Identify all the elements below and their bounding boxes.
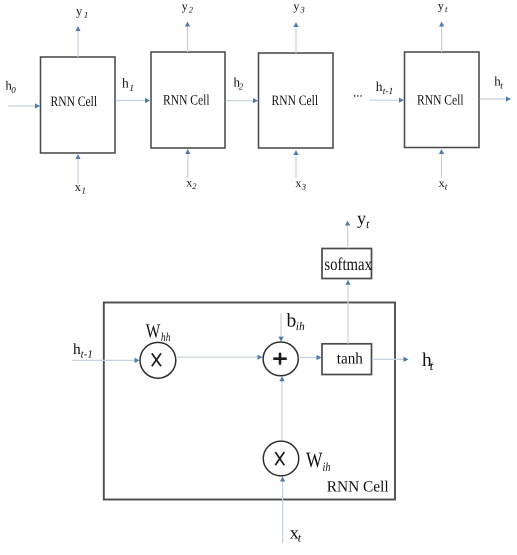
label x2 [186,175,197,191]
wire/arrow box4 to yt [439,22,444,53]
RNN Cell box 2 [151,52,225,148]
svg-text:b: b [287,311,297,332]
svg-text:RNN Cell: RNN Cell [327,479,390,496]
svg-text:tanh: tanh [337,350,363,367]
wire/arrow h(t-1) into box4 [370,98,405,103]
wire/arrow bih into add [278,313,283,342]
svg-text:...: ... [353,85,363,100]
svg-text:t: t [500,81,503,91]
label RNN Cell big text [327,479,390,496]
wire/arrow h2 box2 to box3 [226,98,259,103]
softmax box [322,249,372,279]
wire/arrow ht out of box4 [480,96,512,101]
big RNN Cell box [104,303,395,500]
svg-text:RNN Cell: RNN Cell [163,93,210,109]
svg-text:W: W [306,447,323,472]
wire/arrow x1 into box1 [75,154,80,184]
svg-text:RNN Cell: RNN Cell [272,93,319,109]
multiply node circle 1 [140,342,176,378]
svg-text:1: 1 [129,84,134,94]
svg-text:ih: ih [323,460,331,474]
label yt top [438,0,448,14]
label x1 [75,180,86,196]
RNN Cell box 3 [259,53,334,148]
svg-text:x: x [295,176,301,190]
svg-text:y: y [76,4,83,18]
svg-text:3: 3 [301,182,306,192]
svg-text:x: x [439,176,445,190]
label h(t-1) top [376,79,394,97]
wire/arrow X1 to add [176,355,263,360]
add node circle [263,342,298,376]
X glyph in circle 1 [152,353,161,366]
svg-text:t: t [430,358,434,373]
wire/arrow h(t-1) into X1 [72,358,140,363]
svg-text:W: W [146,320,161,342]
svg-text:1: 1 [82,186,87,196]
svg-text:hh: hh [161,330,171,344]
RNN Cell box 1 [41,57,116,153]
label ellipsis [353,85,363,100]
wire/arrow h0 into box1 [8,103,40,108]
svg-text:3: 3 [300,5,305,15]
svg-text:y: y [357,208,366,228]
svg-text:h: h [122,76,129,91]
label x3 [295,176,306,192]
svg-text:0: 0 [11,85,16,95]
svg-text:h: h [376,79,383,94]
svg-text:RNN Cell: RNN Cell [417,92,464,108]
svg-text:y: y [293,0,299,13]
label xt bottom [290,523,302,545]
svg-text:RNN Cell: RNN Cell [51,94,98,110]
svg-text:y: y [182,0,188,13]
label RNN Cell text 3 [272,93,319,109]
plus glyph [273,353,286,365]
label Whh [146,320,171,344]
wire/arrow xt into box4 [439,149,444,177]
label h2 [234,74,244,91]
RNN Cell box 4 [405,52,480,148]
label ht bottom [422,350,434,373]
label h(t-1) bottom [73,341,93,360]
label bih [287,311,306,333]
label RNN Cell text 1 [51,94,98,110]
wire/arrow X2 to add [279,376,284,440]
label softmax text [324,254,372,274]
X glyph in circle 2 [275,452,284,465]
svg-text:ih: ih [296,321,305,333]
label xt top [439,176,448,192]
label y3 [293,0,304,15]
label Wih [306,447,331,474]
wire/arrow x2 into box2 [185,149,190,178]
svg-text:2: 2 [192,181,197,191]
label y2 [182,0,194,15]
svg-text:2: 2 [189,5,194,15]
label RNN Cell text 2 [163,93,210,109]
wire/arrow tanh to ht [372,357,409,362]
wire/arrow xt into X2 [280,477,285,544]
wire/arrow tanh to softmax [345,280,350,344]
svg-text:2: 2 [239,81,244,91]
label h1 [122,76,134,94]
label RNN Cell text 4 [417,92,464,108]
tanh box [322,344,372,375]
wire/arrow h1 box1 to box2 [116,98,151,103]
svg-text:t-1: t-1 [383,87,394,97]
svg-text:1: 1 [84,10,89,20]
wire/arrow add to tanh [299,355,322,360]
label yt bottom [357,208,370,231]
wire/arrow x3 into box3 [293,150,298,178]
wire/arrow box3 to y3 [293,22,298,53]
label y1 [76,4,88,20]
multiply node circle 2 [263,441,299,476]
label tanh text [337,350,363,367]
wire/arrow box1 to y1 [75,26,80,57]
svg-text:softmax: softmax [324,254,372,274]
label ht top [494,73,503,91]
wire/arrow box2 to y2 [185,22,190,53]
label h0 [6,79,17,95]
svg-text:y: y [438,0,444,12]
svg-text:t-1: t-1 [81,349,93,361]
wire/arrow softmax to yt [345,221,350,249]
